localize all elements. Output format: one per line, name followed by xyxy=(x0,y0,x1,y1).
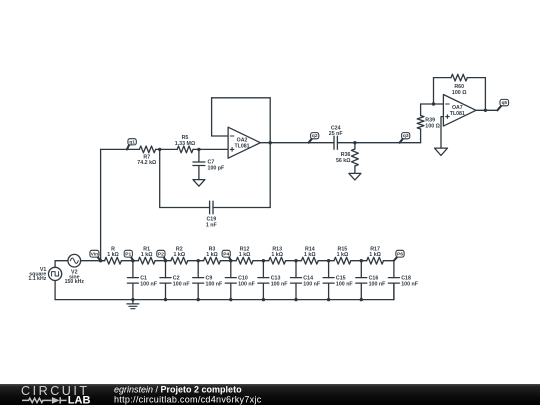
svg-text:q5: q5 xyxy=(501,100,507,106)
svg-text:q1: q1 xyxy=(129,139,135,145)
svg-text:100 nF: 100 nF xyxy=(238,281,256,287)
svg-text:Vin: Vin xyxy=(91,252,99,258)
svg-text:100 nF: 100 nF xyxy=(271,281,289,287)
svg-text:74.2 kΩ: 74.2 kΩ xyxy=(137,160,157,166)
svg-text:150 kHz: 150 kHz xyxy=(65,279,85,285)
svg-text:100 Ω: 100 Ω xyxy=(425,124,440,130)
svg-text:LAB: LAB xyxy=(68,395,91,405)
svg-text:1 kΩ: 1 kΩ xyxy=(271,252,283,258)
svg-text:P6: P6 xyxy=(397,252,403,258)
svg-text:1.1 kHz: 1.1 kHz xyxy=(28,276,46,282)
svg-text:100 nF: 100 nF xyxy=(369,281,387,287)
svg-text:1 kΩ: 1 kΩ xyxy=(206,252,218,258)
svg-text:1.33 MΩ: 1.33 MΩ xyxy=(175,141,196,147)
svg-text:1 nF: 1 nF xyxy=(206,223,218,229)
svg-text:q2: q2 xyxy=(312,133,318,139)
svg-text:1 kΩ: 1 kΩ xyxy=(141,252,153,258)
svg-text:1 kΩ: 1 kΩ xyxy=(239,252,251,258)
svg-text:q3: q3 xyxy=(403,133,409,139)
svg-text:P2: P2 xyxy=(158,252,164,258)
svg-text:100 nF: 100 nF xyxy=(140,281,158,287)
svg-text:1 kΩ: 1 kΩ xyxy=(107,252,119,258)
svg-text:100 nF: 100 nF xyxy=(336,281,354,287)
svg-text:P4: P4 xyxy=(223,252,229,258)
svg-text:1 kΩ: 1 kΩ xyxy=(173,252,185,258)
svg-text:http://circuitlab.com/cd4nv6rk: http://circuitlab.com/cd4nv6rky7xjc xyxy=(114,394,262,404)
svg-text:100 nF: 100 nF xyxy=(303,281,321,287)
svg-text:100 pF: 100 pF xyxy=(208,165,226,171)
svg-text:1 kΩ: 1 kΩ xyxy=(337,252,349,258)
svg-text:56 kΩ: 56 kΩ xyxy=(336,158,351,164)
svg-text:1 kΩ: 1 kΩ xyxy=(369,252,381,258)
svg-text:100 nF: 100 nF xyxy=(206,281,224,287)
svg-text:TL081: TL081 xyxy=(450,111,465,117)
svg-text:100 nF: 100 nF xyxy=(173,281,191,287)
svg-text:1 kΩ: 1 kΩ xyxy=(304,252,316,258)
svg-text:egrinstein / Projeto 2 complet: egrinstein / Projeto 2 completo xyxy=(114,385,242,395)
svg-text:100 Ω: 100 Ω xyxy=(452,90,467,96)
svg-text:TL081: TL081 xyxy=(235,143,250,149)
svg-text:25 nF: 25 nF xyxy=(329,131,344,137)
svg-text:100 nF: 100 nF xyxy=(401,281,419,287)
svg-text:P1: P1 xyxy=(125,252,131,258)
